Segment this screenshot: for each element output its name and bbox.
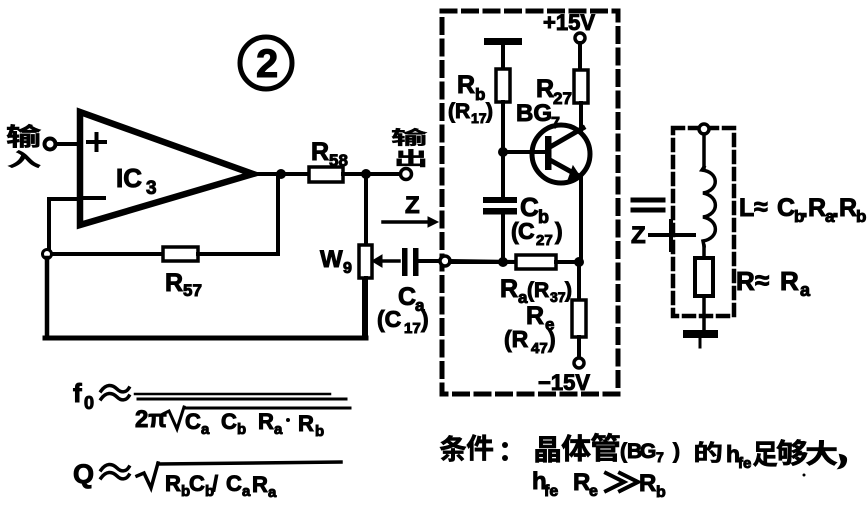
svg-text:(R: (R bbox=[527, 279, 549, 302]
svg-text:C: C bbox=[189, 471, 205, 496]
svg-text:(: ( bbox=[620, 440, 627, 463]
svg-text:(R: (R bbox=[448, 100, 470, 123]
svg-text:R: R bbox=[639, 470, 656, 497]
svg-text:C: C bbox=[221, 409, 237, 434]
svg-text:a: a bbox=[274, 421, 283, 438]
svg-text:3: 3 bbox=[146, 178, 157, 199]
svg-text:58: 58 bbox=[329, 151, 348, 170]
svg-text:R: R bbox=[165, 269, 183, 297]
svg-text:R: R bbox=[808, 194, 826, 222]
svg-text:≈: ≈ bbox=[755, 265, 769, 295]
svg-text:9: 9 bbox=[343, 260, 352, 277]
svg-text:R: R bbox=[839, 194, 857, 222]
svg-text:0: 0 bbox=[84, 393, 94, 413]
svg-text:R: R bbox=[457, 71, 475, 99]
svg-text:C: C bbox=[185, 409, 201, 434]
svg-text:b: b bbox=[475, 85, 485, 104]
svg-text:17: 17 bbox=[471, 110, 487, 126]
svg-text:a: a bbox=[201, 421, 210, 438]
svg-text:b: b bbox=[237, 421, 246, 438]
svg-text:): ) bbox=[673, 440, 680, 463]
svg-text:C: C bbox=[518, 218, 535, 244]
svg-text:(C: (C bbox=[377, 306, 401, 332]
svg-text:C: C bbox=[777, 194, 795, 222]
svg-text:2π: 2π bbox=[135, 406, 167, 433]
svg-text:b: b bbox=[538, 207, 549, 227]
svg-text:G: G bbox=[640, 440, 656, 463]
svg-text:47: 47 bbox=[531, 340, 548, 357]
svg-text:Z: Z bbox=[405, 192, 420, 219]
svg-text:IC: IC bbox=[116, 163, 142, 193]
svg-text:b: b bbox=[856, 207, 866, 226]
svg-text:R: R bbox=[165, 471, 181, 496]
svg-text:fe: fe bbox=[738, 455, 751, 472]
svg-text:R: R bbox=[526, 302, 544, 330]
svg-text:Q: Q bbox=[73, 459, 94, 489]
svg-text:a: a bbox=[800, 280, 811, 300]
svg-text:.: . bbox=[801, 195, 808, 223]
svg-text:27: 27 bbox=[536, 232, 553, 249]
svg-text:R: R bbox=[736, 266, 755, 296]
svg-text:57: 57 bbox=[183, 281, 202, 300]
svg-text:R: R bbox=[311, 138, 329, 166]
svg-text:f: f bbox=[73, 378, 82, 408]
svg-text:L: L bbox=[739, 194, 754, 222]
svg-text:): ) bbox=[421, 306, 429, 332]
svg-text:R: R bbox=[780, 266, 799, 296]
svg-text:e: e bbox=[589, 483, 598, 500]
svg-text:R: R bbox=[536, 75, 554, 103]
svg-text:7: 7 bbox=[656, 449, 664, 465]
svg-text:R: R bbox=[573, 469, 590, 496]
svg-text:R: R bbox=[298, 411, 314, 436]
svg-text:R: R bbox=[258, 409, 274, 434]
svg-text:37: 37 bbox=[550, 289, 566, 305]
svg-text:b: b bbox=[315, 423, 324, 440]
svg-text:a: a bbox=[268, 484, 277, 501]
svg-text:27: 27 bbox=[553, 89, 572, 108]
svg-text:): ) bbox=[486, 100, 493, 123]
svg-text:+15V: +15V bbox=[543, 10, 595, 35]
svg-text:2: 2 bbox=[256, 42, 278, 86]
svg-text:): ) bbox=[555, 218, 563, 244]
svg-text:/: / bbox=[212, 471, 218, 496]
svg-text:≈: ≈ bbox=[754, 193, 768, 221]
svg-text:b: b bbox=[656, 484, 666, 501]
svg-text:fe: fe bbox=[544, 483, 558, 500]
svg-text:17: 17 bbox=[404, 320, 421, 337]
svg-text:R: R bbox=[252, 472, 268, 497]
svg-text:R: R bbox=[500, 275, 518, 303]
svg-text:Z: Z bbox=[631, 222, 646, 249]
svg-text:.: . bbox=[832, 195, 839, 223]
svg-text:BG: BG bbox=[516, 100, 552, 127]
svg-text:a: a bbox=[242, 483, 251, 500]
svg-text:C: C bbox=[226, 471, 242, 496]
svg-text:−15V: −15V bbox=[538, 370, 590, 395]
svg-text:W: W bbox=[320, 246, 343, 273]
svg-text:): ) bbox=[548, 326, 556, 352]
svg-text:(R: (R bbox=[504, 326, 529, 352]
